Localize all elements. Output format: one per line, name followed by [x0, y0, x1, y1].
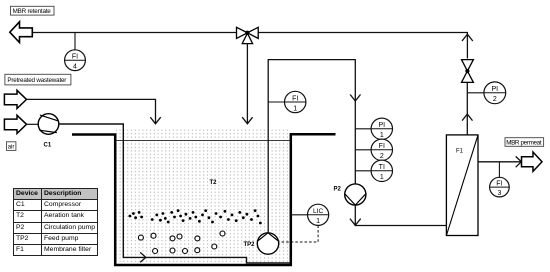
svg-text:FI: FI [292, 95, 298, 102]
three-way valve V1 [237, 27, 259, 43]
pump P2 [345, 184, 366, 205]
water surface line [116, 140, 289, 142]
svg-text:1: 1 [380, 132, 384, 139]
instrument PI-2 stub [467, 92, 484, 94]
label P2 [334, 187, 342, 193]
svg-text:1: 1 [293, 105, 297, 112]
label C1 [44, 143, 52, 149]
flow arrow down (to P2) [350, 95, 360, 102]
instrument LIC-1 stub [292, 214, 308, 216]
pump TP2 [257, 233, 278, 254]
svg-text:air: air [8, 144, 15, 150]
label box MBR permeat [505, 138, 544, 147]
svg-text:1: 1 [380, 174, 384, 181]
membrane filter F1 [446, 135, 478, 236]
svg-text:4: 4 [73, 64, 77, 71]
instrument FI-1 stub [268, 101, 284, 103]
block arrow MBR retentate (points left) [10, 22, 33, 43]
pipe: F1 retentate riser to control valve [466, 83, 468, 135]
signal line (dashed) LIC-1 to TP2 [279, 225, 318, 242]
block arrow pretreated wastewater (points right) [4, 90, 26, 108]
instrument TI-1 [371, 160, 392, 181]
svg-text:FI: FI [496, 181, 502, 188]
pipe: TP2 discharge riser up, across, down to P2 [268, 60, 355, 233]
control valve V2 [462, 60, 474, 83]
svg-text:Pretreated wastewater: Pretreated wastewater [7, 77, 66, 84]
instrument PI-1 stub [355, 128, 371, 130]
svg-text:3: 3 [497, 190, 501, 197]
svg-text:FI: FI [72, 54, 78, 61]
label T2 [210, 180, 218, 186]
svg-text:TP2: TP2 [244, 242, 256, 248]
pipe: air line from compressor down into tank and sparger [59, 124, 290, 263]
pipe: valve branch down to tank [246, 44, 248, 124]
instrument FI-4 [65, 50, 86, 71]
pipe: retentate line (valve to right corner, down to control valve) [258, 33, 467, 59]
svg-text:TI: TI [379, 164, 385, 171]
instrument LIC-1 [308, 204, 329, 225]
instrument FI-3 [490, 177, 510, 197]
compressor C1 [38, 114, 59, 135]
svg-text:MBR permeat: MBR permeat [506, 139, 542, 146]
svg-text:PI: PI [491, 86, 498, 93]
flow arrow up into retentate line [462, 34, 473, 41]
label TP2 [244, 242, 256, 248]
svg-text:MBR retentate: MBR retentate [13, 8, 52, 15]
pipe: wastewater feed into tank [27, 99, 156, 123]
instrument FI-1 [285, 91, 306, 112]
svg-text:FI: FI [379, 143, 385, 150]
tank T2 liquid stipple [116, 129, 290, 265]
svg-text:T2: T2 [210, 180, 218, 186]
instrument FI-3 stub [498, 162, 500, 178]
svg-text:2: 2 [493, 96, 497, 103]
label box Pretreated wastewater [5, 74, 71, 85]
flow arrow down (feed) [150, 117, 160, 124]
svg-text:LIC: LIC [313, 208, 323, 215]
svg-text:1: 1 [316, 218, 320, 225]
flow arrow down (P2 outlet corner) [350, 219, 361, 226]
tank T2 walls [72, 134, 336, 265]
pipe: air inlet to compressor [27, 123, 39, 125]
pipe: retentate line (left of valve) [32, 32, 236, 34]
pipe: permeate line [478, 161, 521, 163]
block arrow air (points right) [4, 115, 26, 133]
label box MBR retentate [11, 6, 55, 15]
bubbles: coarse (open circles) [138, 231, 225, 254]
pipe: P2 outlet to membrane filter [355, 205, 446, 225]
flow arrow right (sparger) [140, 252, 146, 262]
bubbles: fine (filled dots) [129, 209, 262, 224]
instrument FI-2 [371, 139, 392, 160]
flow arrow up (riser) [462, 114, 472, 121]
label box air [7, 142, 16, 151]
instrument FI-2 stub [355, 149, 371, 151]
svg-text:PI: PI [378, 122, 385, 129]
instrument TI-1 stub [355, 170, 371, 172]
instrument PI-2 [484, 82, 506, 104]
svg-text:C1: C1 [44, 143, 52, 149]
svg-text:F1: F1 [456, 149, 464, 155]
device legend table [13, 188, 98, 256]
svg-text:2: 2 [380, 153, 384, 160]
block arrow MBR permeat (points right) [522, 152, 543, 171]
svg-text:P2: P2 [334, 187, 342, 193]
flow arrow down (valve branch) [242, 117, 252, 124]
instrument FI-4 stub [74, 33, 76, 50]
flow arrow right (permeate) [516, 156, 522, 167]
instrument PI-1 [371, 118, 392, 139]
